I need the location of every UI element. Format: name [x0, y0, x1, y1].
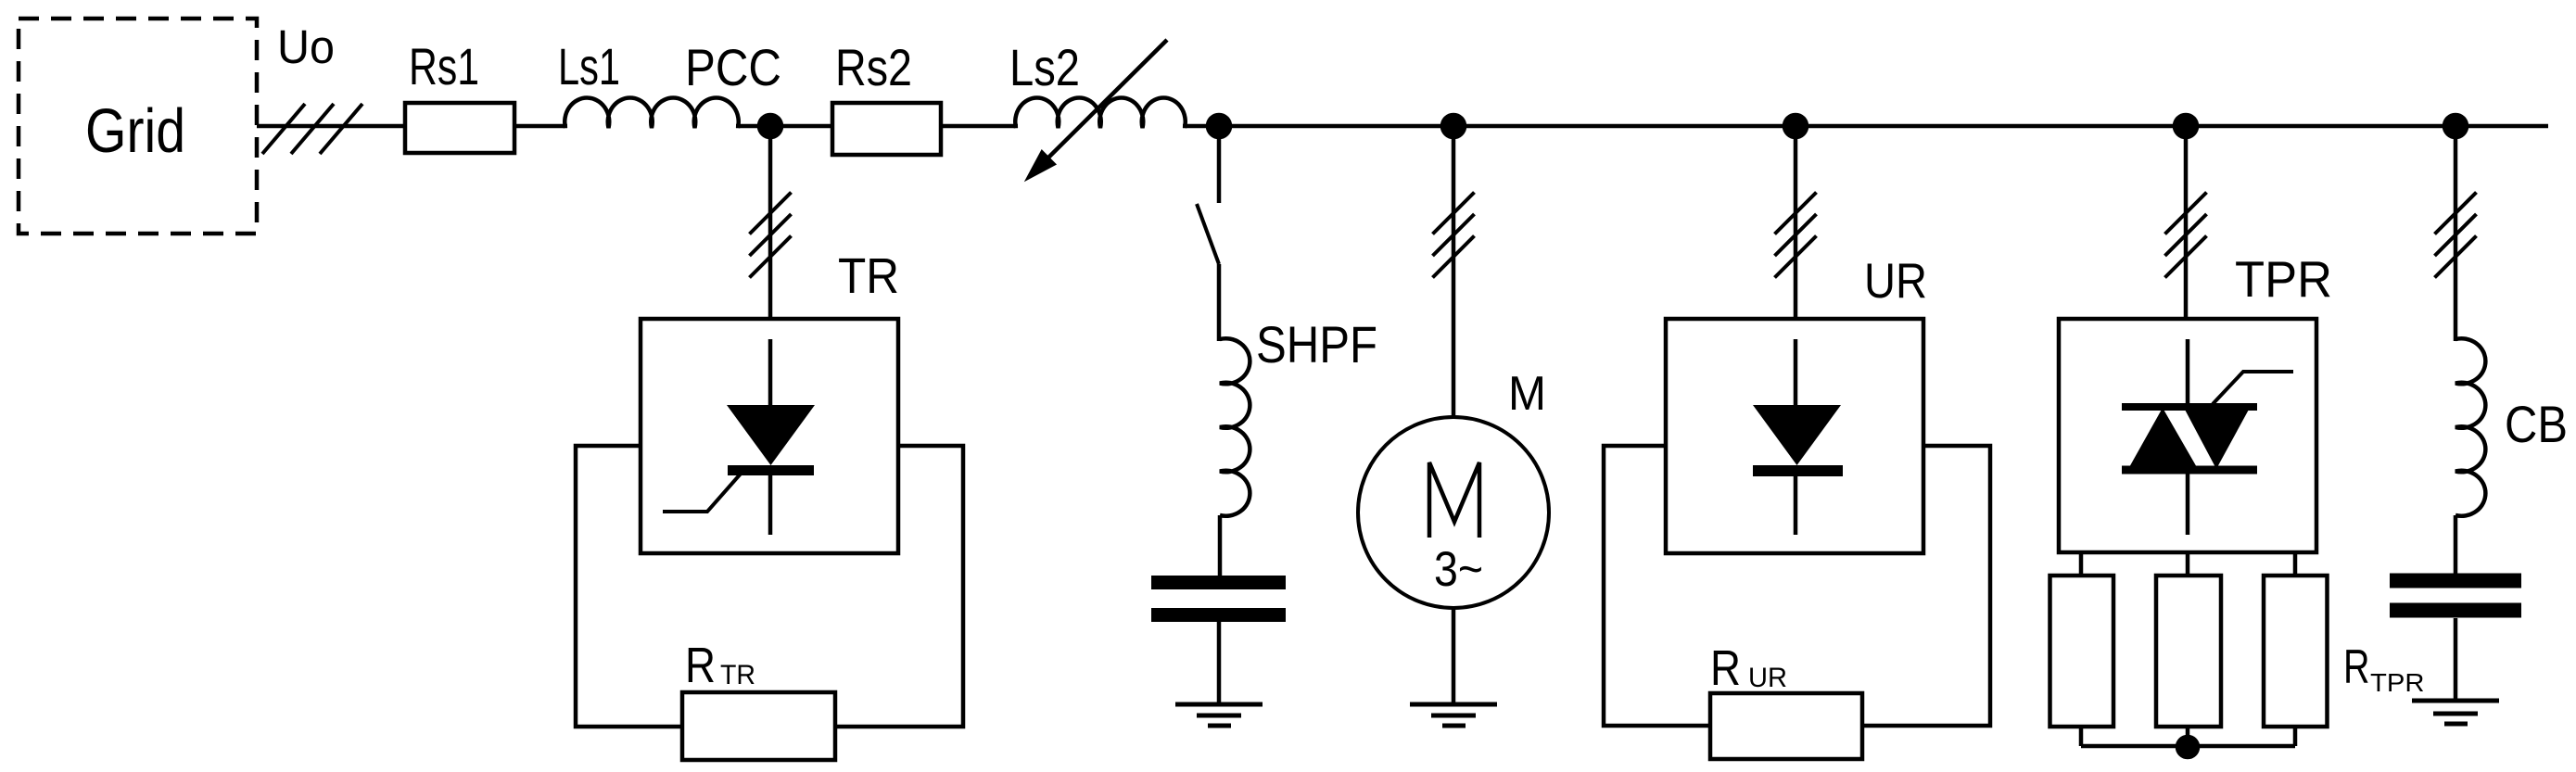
svg-text:Rs1: Rs1	[409, 37, 479, 95]
wire CB capacitor to ground	[2454, 618, 2458, 701]
resistor TPR left	[2050, 576, 2114, 727]
svg-text:Rs2: Rs2	[835, 38, 912, 96]
diode UR	[1753, 339, 1843, 535]
svg-text:M: M	[1508, 367, 1546, 421]
svg-text:R: R	[1710, 640, 1741, 696]
node SHPF branch	[1208, 115, 1230, 137]
resistor Rs1	[405, 103, 514, 153]
wire SHPF capacitor to ground	[1217, 622, 1222, 704]
wire Rs1 to Ls1	[514, 124, 567, 129]
wire M lower	[1452, 608, 1456, 704]
ground CB	[2412, 701, 2499, 724]
three-phase slashes UR branch	[1775, 193, 1817, 278]
svg-text:SHPF: SHPF	[1256, 315, 1377, 373]
node CB branch	[2444, 115, 2467, 137]
wire Rs2 to Ls2	[941, 124, 1018, 129]
three-phase slashes Uo	[262, 104, 362, 154]
svg-text:TPR: TPR	[2235, 250, 2332, 308]
node TPR branch	[2175, 115, 2197, 137]
grid source box	[19, 19, 257, 234]
svg-text:Ls1: Ls1	[558, 37, 620, 95]
switch blade SHPF	[1197, 204, 1219, 264]
ground SHPF	[1175, 704, 1263, 726]
ground M	[1410, 704, 1497, 726]
wire TPR bottom	[2081, 727, 2295, 746]
wire TR left side	[576, 446, 682, 727]
three-phase slashes CB branch	[2435, 193, 2477, 278]
wire UR upper	[1794, 126, 1798, 319]
thyristor TR	[663, 339, 815, 535]
wire PCC down to TR	[768, 126, 773, 319]
inductor Ls2	[1015, 97, 1186, 128]
capacitor SHPF	[1151, 583, 1286, 615]
wire UR right side	[1862, 446, 1990, 726]
wire M upper	[1452, 126, 1456, 418]
motor M glyph	[1429, 462, 1479, 538]
wire bus right section	[1183, 124, 2548, 129]
wire UR left side	[1604, 446, 1710, 726]
wire Grid to Rs1	[257, 124, 405, 129]
resistor TPR right	[2264, 576, 2328, 727]
node UR branch	[1784, 115, 1807, 137]
rectifier TR box	[641, 319, 898, 553]
resistor RTR	[682, 692, 835, 760]
three-phase slashes M branch	[1433, 193, 1475, 278]
triac TPR	[2122, 339, 2293, 535]
svg-text:Uo: Uo	[277, 20, 335, 73]
svg-text:TPR: TPR	[2370, 668, 2425, 697]
node PCC	[759, 115, 781, 137]
node M branch	[1442, 115, 1465, 137]
svg-text:TR: TR	[838, 248, 899, 304]
rectifier UR box	[1666, 319, 1923, 553]
wire TR right side	[835, 446, 963, 727]
inductor SHPF	[1220, 338, 1250, 516]
svg-text:3~: 3~	[1434, 542, 1483, 597]
wire SHPF to coil	[1217, 264, 1222, 341]
rectifier TPR box	[2059, 319, 2316, 552]
three-phase slashes TPR branch	[2165, 193, 2207, 278]
wire TPR upper	[2184, 126, 2189, 319]
wire SHPF upper	[1217, 126, 1222, 203]
svg-text:R: R	[685, 638, 716, 693]
inductor Ls1	[565, 98, 739, 128]
svg-text:Ls2: Ls2	[1009, 38, 1080, 96]
motor M circle	[1358, 417, 1549, 608]
svg-text:CB: CB	[2505, 395, 2568, 453]
wire SHPF coil to capacitor	[1218, 515, 1223, 577]
svg-text:R: R	[2343, 640, 2370, 694]
capacitor CB	[2390, 581, 2521, 611]
svg-text:Grid: Grid	[85, 96, 185, 166]
svg-text:TR: TR	[720, 660, 755, 690]
svg-text:UR: UR	[1748, 663, 1787, 693]
wire TPR stubs top	[2081, 552, 2295, 576]
wire Ls1 to Rs2	[736, 124, 832, 129]
svg-text:PCC: PCC	[685, 38, 781, 96]
resistor RUR	[1710, 693, 1862, 759]
three-phase slashes TR branch	[750, 193, 792, 278]
resistor TPR middle	[2156, 576, 2221, 727]
wire CB upper	[2454, 126, 2458, 341]
svg-text:UR: UR	[1864, 254, 1927, 309]
node TPR bottom	[2177, 737, 2198, 757]
wire CB coil to capacitor	[2454, 515, 2458, 575]
inductor CB	[2455, 338, 2485, 516]
resistor Rs2	[832, 103, 941, 155]
variable inductor arrow	[1025, 40, 1167, 181]
